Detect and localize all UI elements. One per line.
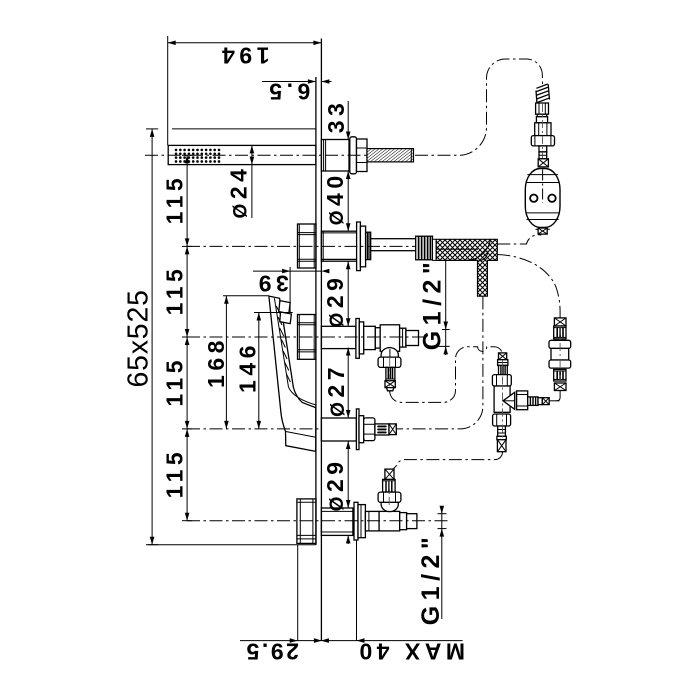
svg-text:39: 39 xyxy=(254,270,289,296)
svg-text:33: 33 xyxy=(323,99,349,134)
svg-text:146: 146 xyxy=(235,341,261,393)
svg-text:65x525: 65x525 xyxy=(123,289,155,387)
svg-text:115: 115 xyxy=(162,448,188,499)
svg-text:G1/2": G1/2" xyxy=(417,532,445,626)
svg-text:194: 194 xyxy=(218,43,270,69)
svg-text:6.5: 6.5 xyxy=(265,79,310,105)
svg-text:29.5: 29.5 xyxy=(244,639,299,665)
svg-text:115: 115 xyxy=(162,265,188,316)
svg-text:115: 115 xyxy=(162,356,188,407)
svg-text:MAX 40: MAX 40 xyxy=(355,639,465,665)
svg-text:115: 115 xyxy=(162,174,188,225)
svg-text:G1/2": G1/2" xyxy=(419,257,447,351)
svg-text:168: 168 xyxy=(203,336,229,388)
